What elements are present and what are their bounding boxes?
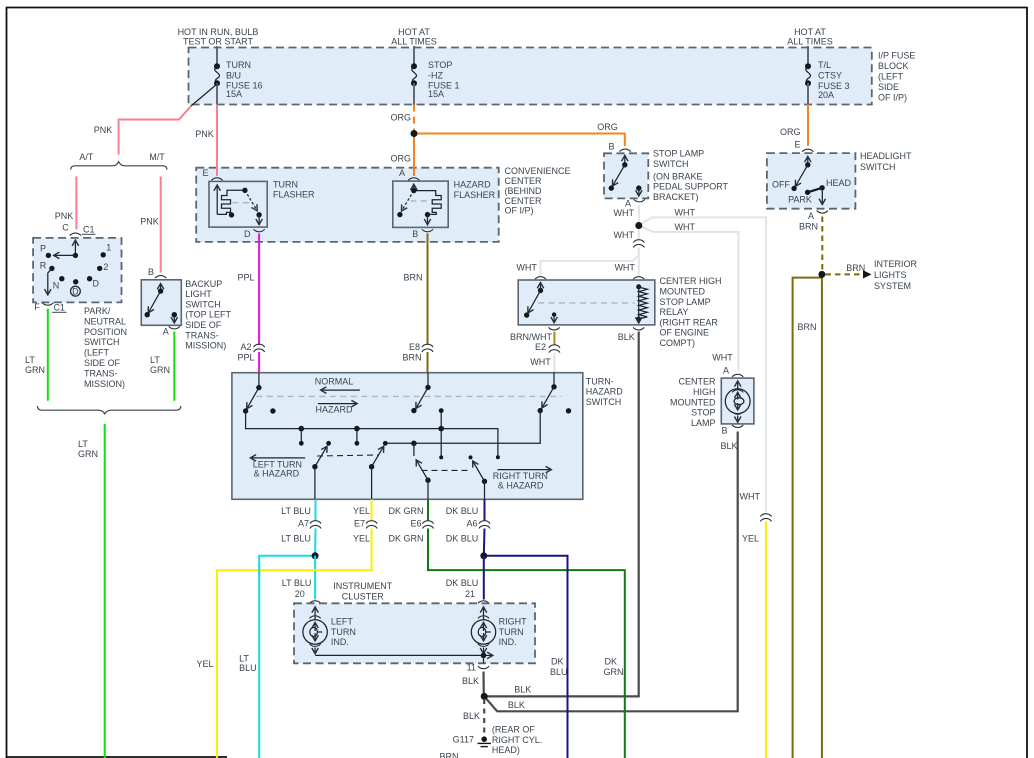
lamp right turn indicator [471,607,527,653]
svg-text:(LEFT: (LEFT [84,348,110,358]
svg-text:RIGHT TURN: RIGHT TURN [493,471,548,481]
svg-text:PEDAL SUPPORT: PEDAL SUPPORT [653,182,729,192]
wire LT BLU overdraw at yellow crossing [258,565,260,576]
svg-text:LIGHT: LIGHT [185,289,212,299]
svg-text:D: D [244,229,251,239]
wire LT GRN from backup switch A [173,332,175,401]
svg-text:INSTRUMENT: INSTRUMENT [333,581,392,591]
svg-text:BLU: BLU [239,663,257,673]
svg-text:TRANS-: TRANS- [185,330,219,340]
svg-text:SIDE OF: SIDE OF [185,320,222,330]
svg-text:(ON BRAKE: (ON BRAKE [653,171,703,181]
blade to YEL [369,464,374,469]
svg-text:& HAZARD: & HAZARD [254,469,300,479]
label LEFT TURN & HAZARD with arrow [251,457,306,459]
svg-text:E6: E6 [410,519,421,529]
svg-text:MOUNTED: MOUNTED [660,287,706,297]
svg-text:DK GRN: DK GRN [388,534,423,544]
svg-text:G117: G117 [453,735,474,745]
svg-text:A/T: A/T [79,152,94,162]
svg-text:DK BLU: DK BLU [446,578,479,588]
svg-text:11: 11 [467,662,476,672]
svg-text:15A: 15A [428,89,444,99]
svg-text:TRANS-: TRANS- [84,368,118,378]
svg-text:C1: C1 [83,224,95,234]
svg-text:MISSION): MISSION) [185,341,226,351]
svg-text:(BEHIND: (BEHIND [505,186,543,196]
svg-text:CONVENIENCE: CONVENIENCE [505,166,571,176]
ground G117 [453,735,491,747]
convenience center box [196,168,499,242]
svg-text:B/U: B/U [226,71,241,81]
svg-text:E7: E7 [354,519,365,529]
park/neutral position switch S1 [33,223,121,313]
svg-text:20A: 20A [818,90,834,100]
svg-text:COMPT): COMPT) [660,338,696,348]
wire BRN junction down to bottom [821,274,823,758]
label: I/P FUSE BLOCK (LEFT SIDE OF I/P) [878,51,915,103]
svg-text:SWITCH: SWITCH [84,337,120,347]
I/P fuse block box [189,48,872,105]
svg-text:CENTER: CENTER [505,196,543,206]
svg-text:SIDE OF: SIDE OF [84,358,121,368]
svg-text:RIGHT CYL.: RIGHT CYL. [492,735,542,745]
svg-text:YEL: YEL [196,659,213,669]
svg-text:FLASHER: FLASHER [273,190,315,200]
wire WHT stop lamp switch A down [638,205,640,226]
svg-text:HEAD: HEAD [826,178,852,188]
svg-text:MOUNTED: MOUNTED [670,397,716,407]
svg-text:20: 20 [295,589,305,599]
svg-text:A: A [625,199,631,209]
svg-text:LT: LT [78,439,88,449]
wire LT BLU connector to junction [314,529,316,556]
wire BRN (dashed) to interior lights system [826,273,863,275]
svg-text:ORG: ORG [391,154,412,164]
CHMSL relay K1 [518,277,655,330]
wire BLK cluster 11 down [482,672,484,697]
gang dashed links [317,455,378,456]
wire BRN connector to turn-hazard switch [427,352,429,373]
wire WHT connector E2 to turn-hazard switch [553,353,555,373]
bus 1 [246,411,498,457]
wire ORG junction to stop lamp switch B [414,134,625,147]
svg-text:BLOCK: BLOCK [878,61,909,71]
svg-text:BRN: BRN [439,752,458,758]
wire ORG fuse3 to headlight switch E [807,105,809,146]
svg-text:21: 21 [465,589,475,599]
svg-text:(RIGHT REAR: (RIGHT REAR [660,317,719,327]
svg-text:YEL: YEL [353,534,370,544]
contact dot isolated left [270,408,275,413]
wire LT BLU switch to connector A7 [315,499,317,521]
svg-text:RIGHT: RIGHT [499,617,527,627]
lamp left turn indicator [303,607,356,653]
svg-text:WHT: WHT [530,357,551,367]
svg-text:A: A [723,366,729,376]
label interior lights system [874,259,918,291]
wire PNK branch from fuse16 to A/T-M/T brace [119,106,191,155]
svg-text:BRN: BRN [402,353,421,363]
svg-text:BRN/WHT: BRN/WHT [510,332,552,342]
svg-text:N: N [53,280,60,290]
svg-text:HOT AT: HOT AT [398,27,430,37]
svg-text:WHT: WHT [614,230,635,240]
svg-text:HAZARD: HAZARD [586,387,624,397]
fuse F16 TURN B/U FUSE 16 15A [191,46,263,106]
node BLK junction G117 [481,693,488,700]
wire PNK M/T branch [160,177,162,273]
bus 2 [385,411,540,444]
svg-text:STOP LAMP: STOP LAMP [653,149,704,159]
svg-text:DK: DK [551,657,564,667]
svg-text:HOT AT: HOT AT [794,27,826,37]
svg-text:ALL TIMES: ALL TIMES [391,37,437,47]
svg-text:A2: A2 [240,342,251,352]
svg-text:NEUTRAL: NEUTRAL [84,316,126,326]
svg-text:-HZ: -HZ [428,71,443,81]
svg-text:C: C [62,223,69,233]
label (REAR OF RIGHT CYL. HEAD) [492,725,542,756]
hazard flasher U2 [393,168,496,239]
svg-text:BLK: BLK [463,711,480,721]
svg-text:HIGH: HIGH [693,387,716,397]
svg-text:GRN: GRN [604,667,624,677]
svg-text:E8: E8 [409,342,420,352]
svg-text:CTSY: CTSY [818,71,842,81]
blade to LT BLU [312,464,317,469]
svg-text:HEADLIGHT: HEADLIGHT [860,151,912,161]
wire BRN branch left down to bottom [793,278,822,758]
wire BLK CHMSL lamp B to G117 junction [484,432,738,712]
svg-text:WHT: WHT [675,222,696,232]
svg-text:PNK: PNK [94,125,113,135]
svg-text:ORG: ORG [780,127,801,137]
svg-text:SWITCH: SWITCH [586,397,622,407]
node DK BLU junction [480,552,487,559]
svg-text:SWITCH: SWITCH [185,299,221,309]
feed label: HOT IN RUN, BULB TEST OR START [178,27,259,47]
svg-text:IND.: IND. [499,637,517,647]
svg-text:HAZARD: HAZARD [315,404,353,414]
wire PNK A/T branch [75,177,77,230]
turn flasher U1 [202,168,315,239]
svg-text:BACKUP: BACKUP [185,279,222,289]
brace A/T - M/T [71,162,167,170]
wire PNK fuse16 down [216,105,218,169]
svg-text:ORG: ORG [597,122,618,132]
wire BRN entry inside switch [427,373,429,388]
svg-text:LT BLU: LT BLU [281,506,311,516]
svg-text:E2: E2 [535,342,546,352]
svg-text:R: R [40,260,47,270]
svg-text:A: A [808,211,814,221]
label CHMSL relay [660,276,722,348]
node LT BLU junction [312,552,319,559]
wire DK GRN connector right to bottom [428,529,625,758]
svg-text:HOT IN RUN, BULB: HOT IN RUN, BULB [178,27,259,37]
svg-text:LT BLU: LT BLU [282,578,312,588]
svg-text:WHT: WHT [675,208,696,218]
backup light switch S2 [141,267,181,337]
wire LT BLU branch left to bottom [259,556,315,758]
svg-text:B: B [608,141,614,151]
CHMSL lamp E1 [712,353,754,436]
wire PNK into turn flasher E [216,167,218,176]
svg-text:YEL: YEL [742,534,759,544]
svg-text:PNK: PNK [55,211,74,221]
wire DK GRN switch to connector E6 [427,499,429,521]
svg-text:INTERIOR: INTERIOR [874,259,918,269]
wire ORG from fuse1 (dashed) to junction [413,105,415,132]
svg-text:DK GRN: DK GRN [388,506,423,516]
fuse F1 STOP-HZ FUSE 1 15A [411,46,460,105]
svg-text:POSITION: POSITION [84,327,127,337]
svg-text:1: 1 [106,242,111,252]
svg-text:DK BLU: DK BLU [446,534,479,544]
label CHMSL lamp [670,377,716,428]
svg-text:BLK: BLK [462,676,479,686]
svg-text:CENTER: CENTER [505,176,543,186]
svg-text:GRN: GRN [25,365,45,375]
svg-text:PARK: PARK [788,195,812,205]
blade from BRN [425,385,430,390]
wire DK BLU junction to cluster 21 [483,556,485,600]
svg-text:PPL: PPL [237,353,254,363]
svg-text:E: E [794,140,800,150]
svg-text:LIGHTS: LIGHTS [874,270,907,280]
svg-text:LT: LT [239,654,249,664]
svg-text:LT BLU: LT BLU [281,534,311,544]
wire BRN/WHT relay to connector E2 [553,332,555,345]
svg-text:TURN: TURN [499,627,524,637]
svg-text:WHT: WHT [712,353,733,363]
svg-text:IND.: IND. [331,637,349,647]
node ORG junction [411,130,418,137]
svg-text:BRN: BRN [846,263,865,273]
svg-text:HAZARD: HAZARD [454,180,492,190]
svg-text:HEAD): HEAD) [492,745,520,755]
svg-text:SWITCH: SWITCH [653,159,689,169]
wire YEL connector left to bottom [217,529,372,758]
brace joining LT GRN wires [37,406,180,414]
svg-text:WHT: WHT [614,208,635,218]
feed label: HOT AT ALL TIMES (ctsy fuse) [787,27,833,47]
svg-text:GRN: GRN [78,449,98,459]
label convenience center [505,166,571,215]
dashed guide line [256,395,562,397]
blade from WHT [551,384,556,389]
svg-text:LT: LT [150,355,160,365]
svg-text:OF ENGINE: OF ENGINE [660,328,710,338]
svg-text:CENTER: CENTER [678,377,716,387]
svg-text:B: B [412,229,418,239]
wire LT BLU junction to cluster 20 [314,556,316,600]
label park/neutral position switch [84,306,127,389]
svg-text:(TOP LEFT: (TOP LEFT [185,310,231,320]
svg-text:BLU: BLU [550,667,568,677]
svg-text:WHT: WHT [614,262,635,272]
svg-text:C1: C1 [53,303,65,313]
svg-text:SWITCH: SWITCH [860,162,896,172]
fuse F3 T/L CTSY FUSE 3 20A [805,46,850,105]
wire WHT to relay terminals [638,248,640,276]
svg-text:PARK/: PARK/ [84,306,111,316]
svg-text:STOP: STOP [691,408,715,418]
svg-text:TURN: TURN [273,179,298,189]
svg-text:(LEFT: (LEFT [878,72,904,82]
wire PPL connector to turn-hazard switch [258,352,260,373]
svg-text:(REAR OF: (REAR OF [492,725,536,735]
svg-text:F: F [34,302,40,312]
wire YEL switch to connector E7 [371,499,373,521]
svg-text:D: D [72,287,79,297]
wire WHT junction down [638,226,640,240]
svg-text:PNK: PNK [195,129,214,139]
svg-text:OF I/P): OF I/P) [878,93,907,103]
wire YEL connector to bottom [765,522,767,758]
label RIGHT TURN & HAZARD with arrow [498,469,552,471]
feed label: HOT AT ALL TIMES (stop fuse) [391,27,437,47]
wire WHT branch to right (upper) [639,217,766,512]
svg-text:B: B [148,267,154,277]
svg-text:WHT: WHT [516,262,537,272]
wire BLK relay to G117 junction [484,332,639,697]
label HAZARD with arrow [318,403,357,405]
svg-text:CENTER HIGH: CENTER HIGH [660,276,722,286]
svg-text:RELAY: RELAY [660,307,689,317]
svg-text:YEL: YEL [353,506,370,516]
svg-text:FLASHER: FLASHER [454,190,496,200]
svg-text:NORMAL: NORMAL [315,376,354,386]
svg-text:& HAZARD: & HAZARD [498,481,544,491]
wire WHT branch to right (lower, to CHMSL) [639,226,739,372]
svg-text:2: 2 [103,262,108,272]
svg-text:B: B [721,426,727,436]
stop lamp switch S3 [604,141,648,208]
connector WHT inline [633,240,644,248]
svg-text:PPL: PPL [237,272,254,282]
svg-text:M/T: M/T [149,152,165,162]
svg-text:TURN: TURN [331,627,356,637]
svg-text:BLK: BLK [514,684,531,694]
svg-text:STOP: STOP [428,60,452,70]
wire cluster bus to terminal 11 [315,654,492,656]
svg-text:TEST OR START: TEST OR START [183,37,254,47]
svg-text:E: E [202,168,208,178]
wire PPL entry inside switch [258,373,260,388]
blade from PPL [256,385,261,390]
node BRN junction [818,271,825,278]
svg-text:DK: DK [605,657,618,667]
wire DK BLU connector to junction [483,529,486,556]
svg-text:OF I/P): OF I/P) [505,205,534,215]
headlight switch S4 [767,140,856,222]
contact dot isolated (blade 4 target) [469,455,473,459]
svg-text:BLK: BLK [720,441,737,451]
wire LT GRN from P/N switch F [47,309,49,401]
svg-text:STOP LAMP: STOP LAMP [660,297,711,307]
svg-text:MISSION): MISSION) [84,379,125,389]
svg-text:OFF: OFF [772,180,790,190]
svg-text:PNK: PNK [140,217,159,227]
svg-text:A6: A6 [466,519,477,529]
svg-text:P: P [40,243,46,253]
svg-text:LEFT: LEFT [331,617,354,627]
wire DK BLU switch to connector A6 [484,499,486,521]
svg-text:BRN: BRN [403,272,422,282]
svg-text:DK BLU: DK BLU [446,506,479,516]
svg-text:TURN: TURN [226,60,251,70]
label stop lamp switch [653,149,729,203]
node WHT junction [635,222,642,229]
svg-text:A7: A7 [298,519,309,529]
label headlight switch [860,151,912,172]
svg-text:BRN: BRN [797,322,816,332]
wire BRN hazard flasher B to connector E8 [427,234,429,346]
wire BRN headlight A (dashed) to junction [821,217,823,273]
svg-text:D: D [92,279,99,289]
wire BLK (dashed) to ground G117 [483,699,485,735]
svg-text:SYSTEM: SYSTEM [874,281,911,291]
svg-text:WHT: WHT [740,492,761,502]
svg-text:LT: LT [25,355,35,365]
svg-text:BLK: BLK [618,332,635,342]
blade to DK BLU [482,479,487,484]
svg-text:A: A [399,168,405,178]
svg-text:TURN-: TURN- [586,376,614,386]
turn-hazard switch S5 [232,373,583,500]
contact dot isolated right [566,408,571,413]
svg-text:A: A [163,327,169,337]
svg-text:GRN: GRN [150,365,170,375]
svg-text:I/P FUSE: I/P FUSE [878,51,915,61]
svg-text:CLUSTER: CLUSTER [342,592,385,602]
blade to DK GRN [425,478,430,483]
svg-text:ORG: ORG [391,113,412,123]
label backup light switch [185,279,231,351]
wire LT GRN common to bottom [104,424,106,758]
wire DK BLU branch right to bottom [484,556,568,758]
svg-text:BRN: BRN [799,222,818,232]
wire PPL turn flasher D to connector A2 [258,234,260,346]
svg-text:15A: 15A [226,89,242,99]
wire WHT entry inside switch [553,373,555,387]
svg-text:BRACKET): BRACKET) [653,192,699,202]
svg-text:SIDE: SIDE [878,82,899,92]
svg-text:LAMP: LAMP [691,418,716,428]
contact dot for left turn blade [326,441,331,446]
svg-text:BLK: BLK [508,700,525,710]
wire ORG junction to hazard flasher A [413,134,415,177]
svg-text:T/L: T/L [818,60,831,70]
svg-text:ALL TIMES: ALL TIMES [787,37,833,47]
